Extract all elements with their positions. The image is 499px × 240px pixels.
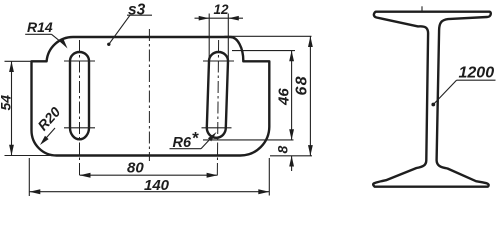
extension line 140 right xyxy=(268,158,270,196)
svg-text:R6: R6 xyxy=(173,135,192,151)
svg-text:54: 54 xyxy=(0,95,13,111)
leader R20 xyxy=(43,128,55,142)
center mark left slot bottom xyxy=(64,127,95,129)
extension line slot apex (46 top) xyxy=(232,50,295,52)
svg-text:8: 8 xyxy=(275,146,291,154)
extension line 12 right xyxy=(227,14,229,61)
svg-text:46: 46 xyxy=(276,88,293,106)
svg-text:80: 80 xyxy=(127,160,144,177)
dimension 54 line xyxy=(11,61,13,155)
svg-text:1200: 1200 xyxy=(459,65,495,82)
center mark right slot top xyxy=(203,60,234,62)
extension line bottom-left xyxy=(5,155,57,157)
centerline right slot xyxy=(217,40,218,178)
I-beam profile xyxy=(373,12,491,187)
svg-text:68: 68 xyxy=(294,75,311,95)
leader 1200 xyxy=(457,79,496,81)
leader R14 xyxy=(25,33,51,35)
extension line top edge right (68) xyxy=(224,35,311,37)
dimension 68 line xyxy=(309,36,311,156)
slot left xyxy=(70,52,89,139)
I-beam top center tick xyxy=(421,6,423,11)
center mark left slot top xyxy=(64,60,95,62)
svg-text:140: 140 xyxy=(144,177,170,194)
centerline plate axis xyxy=(148,29,150,161)
dimension 8 line xyxy=(291,156,293,171)
svg-text:12: 12 xyxy=(214,2,230,17)
extension line 12 left xyxy=(208,14,210,61)
svg-text:s3: s3 xyxy=(128,2,146,19)
leader s3 xyxy=(127,14,152,16)
slot right xyxy=(207,52,228,138)
center mark right slot bottom xyxy=(202,127,232,129)
dimension 80 line xyxy=(80,174,218,176)
extension line slot bottom (46 bottom / 8 top) xyxy=(203,139,294,141)
plate outline xyxy=(32,37,270,156)
leader R6 xyxy=(170,148,202,150)
svg-text:R14: R14 xyxy=(27,19,53,35)
dimension 46 line xyxy=(291,51,293,140)
extension line 54 top xyxy=(5,60,32,62)
centerline left slot xyxy=(79,40,81,178)
dimension 140 line xyxy=(29,191,269,193)
extension line bottom edge right xyxy=(270,155,312,157)
extension line 140 left xyxy=(28,158,30,196)
dimension 12 line xyxy=(195,17,244,19)
